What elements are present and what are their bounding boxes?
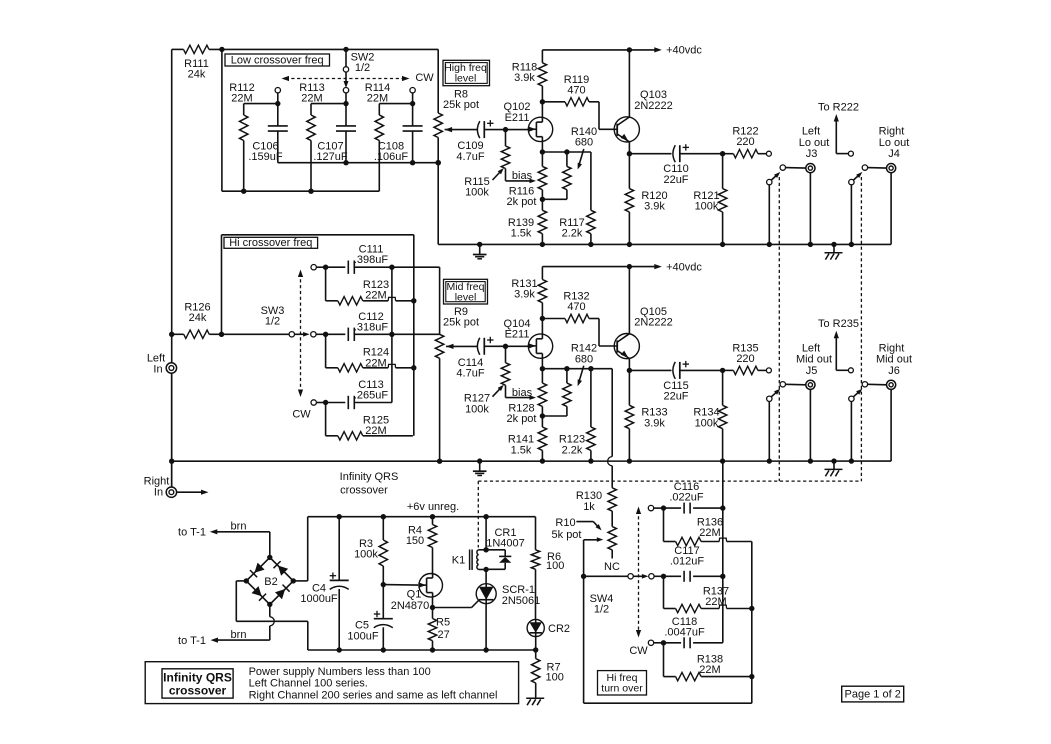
svg-text:3.9k: 3.9k [514, 72, 535, 84]
svg-text:22M: 22M [699, 527, 720, 539]
svg-text:3.9k: 3.9k [514, 289, 535, 301]
svg-text:2N4870: 2N4870 [391, 600, 430, 612]
svg-text:100k: 100k [354, 549, 378, 561]
svg-text:Mid out: Mid out [796, 354, 832, 366]
svg-text:25k pot: 25k pot [443, 317, 479, 329]
svg-text:220: 220 [736, 136, 754, 148]
svg-text:to T-1: to T-1 [178, 527, 206, 539]
svg-text:E211: E211 [505, 112, 530, 124]
svg-text:Left Channel 100 series.: Left Channel 100 series. [249, 678, 368, 690]
svg-text:27: 27 [438, 629, 450, 641]
svg-text:680: 680 [575, 137, 593, 149]
svg-text:22M: 22M [699, 664, 720, 676]
svg-text:Infinity QRS: Infinity QRS [163, 671, 232, 685]
svg-text:150: 150 [406, 535, 424, 547]
svg-text:.022uF: .022uF [669, 492, 704, 504]
svg-text:22M: 22M [365, 290, 386, 302]
svg-text:J5: J5 [806, 365, 818, 377]
svg-text:To R222: To R222 [818, 101, 859, 113]
svg-text:B2: B2 [264, 576, 277, 588]
svg-text:2N2222: 2N2222 [634, 317, 673, 329]
svg-text:+6v unreg.: +6v unreg. [407, 501, 459, 513]
svg-text:22M: 22M [231, 93, 252, 105]
svg-text:Page 1 of 2: Page 1 of 2 [845, 689, 901, 701]
svg-text:Right Channel 200 series and s: Right Channel 200 series and same as lef… [249, 689, 498, 701]
svg-text:220: 220 [736, 353, 754, 365]
svg-text:1000uF: 1000uF [300, 593, 338, 605]
svg-text:E211: E211 [505, 329, 530, 341]
svg-text:level: level [455, 73, 477, 85]
svg-text:+40vdc: +40vdc [666, 45, 702, 57]
svg-text:Power supply Numbers less than: Power supply Numbers less than 100 [249, 666, 431, 678]
svg-text:1.5k: 1.5k [511, 444, 532, 456]
svg-text:22uF: 22uF [663, 391, 688, 403]
svg-text:2.2k: 2.2k [562, 228, 583, 240]
svg-text:Left: Left [802, 342, 820, 354]
svg-text:.0047uF: .0047uF [664, 626, 705, 638]
svg-text:1.5k: 1.5k [511, 228, 532, 240]
svg-text:1/2: 1/2 [265, 316, 280, 328]
svg-text:3.9k: 3.9k [644, 417, 665, 429]
svg-text:24k: 24k [189, 312, 207, 324]
svg-text:level: level [455, 292, 477, 304]
svg-text:22M: 22M [705, 596, 726, 608]
svg-text:470: 470 [567, 301, 585, 313]
svg-text:R5: R5 [436, 617, 450, 629]
svg-text:R10: R10 [555, 517, 575, 529]
svg-text:CW: CW [629, 645, 648, 657]
svg-text:crossover: crossover [169, 684, 227, 698]
svg-text:22uF: 22uF [663, 174, 688, 186]
svg-text:bias: bias [512, 170, 533, 182]
svg-text:Low crossover freq: Low crossover freq [231, 54, 324, 66]
svg-text:100k: 100k [695, 417, 719, 429]
svg-text:Left: Left [802, 126, 820, 138]
svg-text:Right: Right [144, 475, 170, 487]
svg-text:Infinity QRS: Infinity QRS [340, 471, 399, 483]
svg-text:680: 680 [575, 353, 593, 365]
svg-text:2N2222: 2N2222 [634, 100, 673, 112]
svg-text:2k pot: 2k pot [507, 413, 537, 425]
svg-text:.012uF: .012uF [670, 555, 705, 567]
svg-text:Lo out: Lo out [799, 137, 830, 149]
svg-text:brn: brn [231, 521, 247, 533]
svg-text:J6: J6 [888, 365, 900, 377]
svg-text:1k: 1k [583, 501, 595, 513]
svg-text:crossover: crossover [340, 485, 388, 497]
svg-text:CW: CW [415, 72, 434, 84]
svg-text:Right: Right [879, 342, 905, 354]
svg-text:In: In [153, 364, 162, 376]
svg-text:22M: 22M [367, 93, 388, 105]
svg-text:3.9k: 3.9k [644, 201, 665, 213]
svg-text:J4: J4 [888, 148, 900, 160]
svg-text:22M: 22M [365, 425, 386, 437]
svg-text:22M: 22M [365, 357, 386, 369]
svg-text:100: 100 [546, 671, 564, 683]
svg-text:.265uF: .265uF [354, 390, 389, 402]
svg-text:NC: NC [604, 561, 620, 573]
svg-text:turn over: turn over [601, 683, 643, 695]
svg-text:100: 100 [546, 560, 564, 572]
svg-text:100k: 100k [465, 187, 489, 199]
svg-text:1/2: 1/2 [355, 62, 370, 74]
svg-text:1N4007: 1N4007 [486, 538, 525, 550]
svg-text:25k pot: 25k pot [443, 99, 479, 111]
svg-text:.106uF: .106uF [374, 151, 409, 163]
svg-text:470: 470 [567, 84, 585, 96]
svg-text:22M: 22M [301, 93, 322, 105]
svg-text:4.7uF: 4.7uF [456, 151, 484, 163]
svg-text:1/2: 1/2 [594, 603, 609, 615]
svg-text:Mid out: Mid out [876, 354, 912, 366]
svg-text:24k: 24k [188, 69, 206, 81]
svg-text:4.7uF: 4.7uF [456, 368, 484, 380]
svg-text:.318uF: .318uF [354, 322, 389, 334]
svg-text:+40vdc: +40vdc [666, 261, 702, 273]
svg-text:To R235: To R235 [818, 318, 859, 330]
svg-text:2.2k: 2.2k [562, 444, 583, 456]
svg-text:2N5061: 2N5061 [502, 595, 541, 607]
svg-text:bias: bias [512, 387, 533, 399]
svg-text:.159uF: .159uF [248, 151, 283, 163]
svg-text:100k: 100k [695, 201, 719, 213]
svg-text:100k: 100k [465, 403, 489, 415]
svg-text:5k pot: 5k pot [552, 529, 582, 541]
svg-text:.127uF: .127uF [313, 151, 348, 163]
svg-text:100uF: 100uF [347, 631, 378, 643]
svg-text:K1: K1 [452, 554, 465, 566]
svg-text:SCR-1: SCR-1 [502, 584, 535, 596]
svg-text:Q1: Q1 [407, 588, 422, 600]
svg-text:2k pot: 2k pot [507, 196, 537, 208]
svg-text:brn: brn [231, 629, 247, 641]
svg-text:CW: CW [292, 409, 311, 421]
svg-text:Lo out: Lo out [879, 137, 910, 149]
svg-text:In: In [154, 487, 163, 499]
svg-text:Hi crossover freq: Hi crossover freq [229, 237, 312, 249]
svg-text:CR2: CR2 [548, 623, 570, 635]
svg-text:Right: Right [879, 126, 905, 138]
svg-text:J3: J3 [806, 148, 818, 160]
svg-text:.398uF: .398uF [354, 254, 389, 266]
svg-text:to T-1: to T-1 [178, 635, 206, 647]
